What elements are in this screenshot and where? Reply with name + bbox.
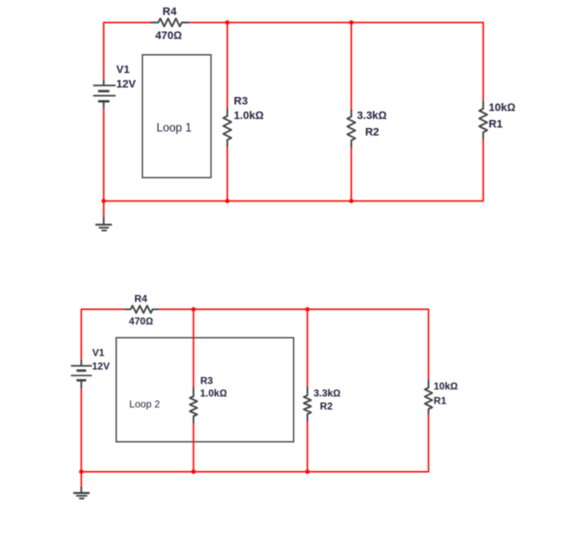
svg-text:R2: R2 xyxy=(320,402,333,413)
wire: ground stub (top circuit) xyxy=(103,201,105,217)
wire: R4 to top-right corner (bottom circuit top rail) xyxy=(158,308,428,310)
wire: top-left corner down to V1 + terminal (bottom circuit) xyxy=(80,309,82,360)
wire: V1+ to R4 lead (top circuit top rail left) xyxy=(104,22,151,24)
junction node: bottom-left / ground tap (bottom circuit) xyxy=(79,470,83,474)
svg-text:12V: 12V xyxy=(116,78,136,90)
wire: R3 down to bottom rail (top circuit) xyxy=(226,147,228,201)
svg-text:Loop 2: Loop 2 xyxy=(129,400,160,411)
svg-text:470Ω: 470Ω xyxy=(129,317,154,328)
svg-text:12V: 12V xyxy=(92,362,110,373)
svg-text:10kΩ: 10kΩ xyxy=(489,102,516,114)
wire: R4 to top-right corner (top circuit top rail) xyxy=(189,22,484,24)
wire: top-left corner down to V1 + terminal (top circuit) xyxy=(103,22,105,79)
wire: top-right corner down to R1 (bottom circuit) xyxy=(428,309,430,381)
wire: R1 down to bottom-right corner (bottom circuit) xyxy=(428,414,430,472)
svg-text:R4: R4 xyxy=(134,294,147,305)
svg-text:1.0kΩ: 1.0kΩ xyxy=(200,389,227,400)
svg-text:R3: R3 xyxy=(234,95,248,107)
wire: R1 down to bottom-right corner (top circuit) xyxy=(482,139,484,202)
wire: R2 down to bottom rail (bottom circuit) xyxy=(306,421,308,472)
wire: R2 down to bottom rail (top circuit) xyxy=(350,148,352,202)
svg-text:R1: R1 xyxy=(489,119,503,131)
voltage source V1 battery (top circuit, 12V) xyxy=(93,79,116,108)
wire: top rail node down to R3 (top circuit) xyxy=(226,23,228,109)
annotation rectangle Loop 2 xyxy=(116,338,293,442)
resistor R1 (bottom circuit, 10k Ohm) xyxy=(425,380,432,415)
ground symbol (bottom circuit) xyxy=(73,487,89,499)
svg-text:V1: V1 xyxy=(116,64,129,76)
junction node: R3 top (top rail, bottom circuit) xyxy=(191,307,195,311)
svg-text:R2: R2 xyxy=(365,127,379,139)
resistor R3 (top circuit, 1.0k Ohm) xyxy=(223,108,231,147)
resistor R4 (top circuit, 470 Ohm) xyxy=(150,19,189,27)
junction node: R2 top (top rail, bottom circuit) xyxy=(305,307,309,311)
wire: top rail node down to R2 (bottom circuit) xyxy=(306,309,308,387)
junction node: bottom-left / ground tap (top circuit) xyxy=(102,199,106,203)
wire: V1 - terminal down to bottom-left node (bottom circuit) xyxy=(80,389,82,472)
svg-text:V1: V1 xyxy=(92,348,105,359)
junction node: R2 bottom (bottom rail, bottom circuit) xyxy=(305,470,309,474)
resistor R4 (bottom circuit, 470 Ohm) xyxy=(125,306,159,313)
wire: V1 - terminal down to bottom-left node (top circuit) xyxy=(103,108,105,201)
junction node: R4/R3 (top rail, top circuit) xyxy=(225,20,229,24)
svg-text:3.3kΩ: 3.3kΩ xyxy=(357,110,387,122)
junction node: R2 bottom (bottom rail, top circuit) xyxy=(349,199,353,203)
svg-text:R4: R4 xyxy=(163,6,178,18)
wire: ground stub (bottom circuit) xyxy=(80,472,82,487)
junction node: R3 bottom (bottom rail, bottom circuit) xyxy=(191,470,195,474)
wire: R3 down to bottom rail (bottom circuit) xyxy=(193,423,195,472)
resistor R2 (top circuit, 3.3k Ohm) xyxy=(347,109,355,148)
wire: bottom rail (top circuit) xyxy=(103,200,483,202)
wire: top rail node down to R2 (top circuit) xyxy=(350,23,352,110)
junction node: R3 bottom (bottom rail, top circuit) xyxy=(225,199,229,203)
annotation rectangle Loop 1 xyxy=(142,55,211,178)
svg-text:R3: R3 xyxy=(200,376,213,387)
wire: top-right corner down to R1 (top circuit) xyxy=(482,22,484,102)
wire: V1+ to R4 lead (bottom circuit top rail left) xyxy=(81,308,125,310)
wire: bottom rail (bottom circuit) xyxy=(81,471,429,473)
resistor R1 (top circuit, 10k Ohm) xyxy=(479,101,487,139)
svg-text:R1: R1 xyxy=(434,396,447,407)
ground symbol (top circuit) xyxy=(95,217,112,231)
voltage source V1 battery (bottom circuit, 12V) xyxy=(71,360,92,389)
svg-text:Loop 1: Loop 1 xyxy=(157,123,192,135)
resistor R2 (bottom circuit, 3.3k Ohm) xyxy=(304,387,311,422)
svg-text:3.3kΩ: 3.3kΩ xyxy=(314,389,341,400)
svg-text:10kΩ: 10kΩ xyxy=(434,381,459,392)
svg-text:470Ω: 470Ω xyxy=(155,30,182,42)
junction node: R2 top (top rail, top circuit) xyxy=(349,20,353,24)
wire: top rail node down to R3 (bottom circuit) xyxy=(193,309,195,388)
svg-text:1.0kΩ: 1.0kΩ xyxy=(234,110,264,122)
resistor R3 (bottom circuit, 1.0k Ohm) xyxy=(190,387,197,423)
